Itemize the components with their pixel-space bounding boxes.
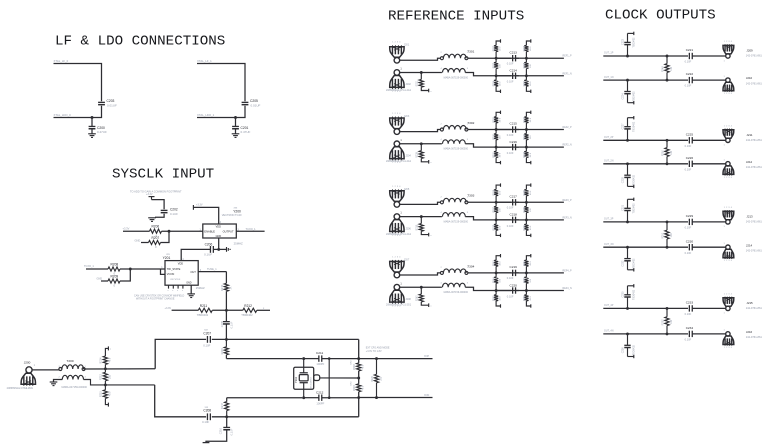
svg-text:J201: J201	[404, 44, 410, 47]
connector J210	[726, 78, 730, 82]
capacitor C224 shunt bottom	[627, 80, 629, 91]
svg-text:49.9: 49.9	[500, 46, 502, 51]
svg-text:49.9: 49.9	[500, 117, 502, 122]
wire top exit	[359, 358, 433, 360]
svg-text:4: 4	[85, 376, 87, 378]
svg-text:R221: R221	[416, 80, 419, 86]
node junction R229	[495, 128, 498, 131]
resistor R250	[666, 140, 668, 147]
wire T303 bottom to network	[465, 217, 511, 220]
wire inner bottom right of C212	[322, 397, 359, 399]
wire R207 up to node	[161, 231, 170, 242]
wire C210 drop	[226, 417, 228, 427]
svg-text:142-0761-861: 142-0761-861	[746, 220, 763, 224]
svg-text:REF4_P: REF4_P	[563, 269, 572, 272]
node junction R250 top	[666, 139, 669, 142]
svg-text:R211: R211	[200, 304, 208, 308]
svg-text:0.10F: 0.10F	[685, 60, 692, 64]
svg-text:x: x	[263, 307, 265, 310]
svg-text:MABA-007159-000000: MABA-007159-000000	[444, 76, 469, 79]
svg-text:100: 100	[500, 208, 502, 212]
svg-text:100: 100	[530, 208, 532, 212]
wire bottom between columns	[496, 290, 519, 292]
wire Y201 OUT	[198, 271, 226, 273]
svg-text:1: 1	[724, 313, 726, 315]
svg-text:R240: R240	[524, 189, 526, 195]
wire inner bottom	[227, 397, 303, 399]
wire top output	[526, 57, 564, 59]
wire J204 to transformer	[400, 143, 442, 145]
resistor R242	[420, 287, 422, 294]
svg-text:1: 1	[724, 226, 726, 228]
svg-text:0.10F: 0.10F	[685, 167, 692, 171]
svg-text:TCXO_1: TCXO_1	[84, 265, 94, 268]
wire C202 to ground	[155, 214, 164, 218]
svg-text:R208: R208	[111, 263, 119, 267]
svg-text:R230: R230	[494, 133, 496, 139]
svg-text:C226: C226	[686, 156, 694, 160]
wire into R206	[123, 230, 150, 232]
svg-text:R233: R233	[524, 116, 526, 122]
svg-text:T303: T303	[467, 194, 474, 198]
wire C230 to connector	[692, 246, 726, 248]
capacitor C217	[512, 199, 514, 205]
svg-text:R225: R225	[524, 62, 526, 68]
connector J209	[726, 54, 730, 58]
wire top between columns	[496, 272, 519, 274]
svg-text:R213: R213	[100, 374, 103, 381]
svg-text:49.9: 49.9	[500, 81, 502, 86]
svg-text:1234: 1234	[724, 347, 733, 349]
capacitor C200	[89, 125, 96, 127]
svg-text:C227: C227	[621, 123, 624, 130]
node junction R235	[420, 215, 423, 218]
svg-text:C206: C206	[205, 242, 213, 246]
capacitor C208	[206, 413, 208, 420]
termination C236	[628, 356, 634, 358]
svg-text:R215: R215	[100, 391, 103, 398]
svg-text:1: 1	[400, 282, 402, 285]
termination R247	[526, 256, 530, 260]
resistor R224	[495, 76, 497, 80]
svg-text:1234: 1234	[724, 41, 733, 43]
svg-text:100: 100	[670, 66, 673, 71]
connector J212	[726, 162, 730, 166]
wire crystal top lead	[303, 359, 305, 373]
svg-text:100: 100	[530, 63, 532, 67]
svg-text:x: x	[430, 235, 432, 237]
wire bottom row	[603, 79, 688, 81]
svg-text:DNI: DNI	[351, 360, 353, 364]
svg-text:SYSCLK INPUT: SYSCLK INPUT	[112, 167, 214, 183]
svg-text:J203: J203	[404, 115, 410, 118]
svg-text:VECTRON TC40: VECTRON TC40	[222, 213, 242, 217]
node junction C223	[626, 55, 629, 58]
resistor R220 column	[376, 359, 378, 375]
svg-text:GND: GND	[135, 238, 141, 242]
connector J203	[394, 129, 400, 135]
svg-text:TO ADD TO GAIN A COMMON FOOTPR: TO ADD TO GAIN A COMMON FOOTPRINT	[130, 190, 182, 194]
wire inner top right of C211	[322, 358, 359, 360]
connector J215	[726, 306, 730, 310]
capacitor C231 shunt top	[627, 211, 629, 222]
svg-text:R251: R251	[661, 232, 664, 239]
svg-text:20868SMA2-07G1-2G1: 20868SMA2-07G1-2G1	[386, 233, 412, 236]
capacitor C206	[209, 246, 211, 253]
svg-text:R245: R245	[494, 295, 496, 301]
svg-text:0.01UF: 0.01UF	[251, 104, 261, 108]
svg-text:0.10F: 0.10F	[202, 420, 209, 424]
svg-text:R239: R239	[524, 206, 526, 212]
wire C222 to connector	[692, 79, 726, 81]
svg-text:3: 3	[467, 68, 469, 70]
connector J204	[394, 141, 400, 147]
svg-text:C207: C207	[203, 331, 211, 335]
wire C234 to connector	[692, 333, 726, 335]
svg-text:REF3_N: REF3_N	[563, 216, 572, 219]
node junction R252 top	[666, 307, 669, 310]
svg-text:100: 100	[500, 135, 502, 139]
termination R221	[421, 87, 428, 90]
wire top to col2	[516, 201, 527, 203]
capacitor C233	[688, 305, 690, 311]
wire J207 to transformer	[400, 273, 441, 275]
resistor R229	[494, 117, 498, 123]
capacitor C210	[223, 426, 230, 428]
svg-text:1234: 1234	[724, 125, 733, 127]
svg-text:100PF: 100PF	[316, 402, 324, 406]
resistor R231	[495, 147, 497, 151]
svg-text:0.1UF: 0.1UF	[170, 212, 178, 216]
svg-text:J212: J212	[746, 160, 753, 164]
node junction R251 top	[666, 220, 669, 223]
svg-text:C235: C235	[621, 291, 624, 298]
svg-text:TCXO_1: TCXO_1	[246, 227, 257, 231]
svg-text:R237: R237	[494, 206, 496, 212]
svg-text:TBD0402: TBD0402	[633, 37, 636, 48]
node junction	[234, 116, 237, 119]
wire T304 top to network	[468, 272, 511, 274]
capacitor C225	[688, 137, 690, 143]
resistor R210	[224, 283, 228, 291]
svg-text:R249: R249	[661, 66, 664, 73]
svg-text:49.9: 49.9	[108, 391, 111, 396]
resistor R237	[495, 202, 497, 206]
svg-text:C219: C219	[510, 265, 518, 269]
capacitor C218	[512, 217, 514, 223]
resistor R247	[524, 260, 528, 266]
svg-text:20868SMA2-07G1-2G1: 20868SMA2-07G1-2G1	[386, 89, 412, 92]
wire bottom between columns	[496, 219, 519, 221]
wire to ground	[235, 129, 237, 134]
termination R224	[496, 86, 500, 91]
svg-text:C205: C205	[250, 99, 258, 103]
wire bottom output	[526, 75, 564, 77]
svg-text:142-0761-861: 142-0761-861	[746, 54, 763, 58]
svg-text:R212: R212	[244, 304, 252, 308]
svg-text:R218: R218	[353, 364, 356, 371]
svg-text:C233: C233	[686, 301, 694, 305]
wire lower right rail	[358, 392, 360, 417]
wire bottom to col2	[516, 219, 527, 221]
ground T200	[50, 381, 58, 383]
svg-text:R242: R242	[416, 295, 419, 301]
svg-text:C225: C225	[686, 132, 694, 136]
node junction C232	[626, 246, 629, 249]
svg-text:100: 100	[500, 63, 502, 67]
power +3.3V Y200	[192, 205, 194, 210]
svg-text:C211: C211	[316, 351, 323, 355]
svg-text:R236: R236	[494, 189, 496, 195]
svg-text:R222: R222	[494, 62, 496, 68]
node junction C206	[217, 248, 220, 251]
svg-text:OUT_1P: OUT_1P	[604, 52, 614, 55]
svg-text:MABA-007159-000000: MABA-007159-000000	[444, 291, 469, 294]
resistor R240	[524, 189, 528, 195]
node junction R214/R213 top	[104, 367, 107, 370]
svg-text:C236: C236	[621, 347, 624, 354]
capacitor C215	[512, 126, 514, 132]
svg-text:TRI_STATE: TRI_STATE	[167, 267, 181, 271]
wire bottom output	[526, 290, 564, 292]
termination R236	[496, 185, 500, 189]
svg-text:1: 1	[85, 366, 87, 368]
wire C229 to connector	[692, 221, 726, 223]
node junction R225	[525, 74, 528, 77]
node junction R244	[495, 289, 498, 292]
capacitor C222	[688, 77, 690, 83]
termination R229	[496, 112, 500, 116]
resistor R226	[524, 45, 528, 51]
svg-text:R243: R243	[494, 260, 496, 266]
capacitor C228 shunt bottom	[627, 164, 629, 175]
svg-text:C231: C231	[621, 204, 624, 211]
wire between R218 R219	[358, 371, 360, 384]
ground for C202	[148, 217, 156, 219]
wire T302 bottom to network	[465, 144, 511, 147]
wire bottom row	[603, 333, 688, 335]
wire R217 to inner bottom wire	[226, 398, 228, 402]
svg-text:142-0761-861: 142-0761-861	[746, 335, 763, 339]
wire R206 to node	[162, 230, 203, 232]
svg-text:R228: R228	[416, 151, 419, 157]
resistor R230	[495, 130, 497, 134]
svg-text:100: 100	[530, 278, 532, 282]
svg-text:GND: GND	[216, 235, 222, 238]
termination R226	[526, 41, 530, 45]
resistor R243	[494, 260, 498, 266]
wire bottom rail of loop	[212, 416, 359, 418]
Y201 NC stubs	[168, 285, 170, 288]
svg-text:R235: R235	[416, 224, 419, 230]
svg-text:49.9: 49.9	[500, 190, 502, 195]
termination R235	[421, 231, 428, 234]
svg-text:x: x	[172, 290, 173, 292]
wire T302 top to network	[468, 129, 511, 131]
termination R243	[496, 256, 500, 260]
capacitor C232 shunt bottom	[627, 247, 629, 258]
svg-text:Y201: Y201	[163, 256, 171, 260]
termination R227	[526, 86, 530, 91]
wire Y200 VDD to power	[193, 207, 218, 224]
wire C209 to top rail	[225, 324, 227, 339]
capacitor C207	[206, 336, 208, 343]
svg-text:0.10F: 0.10F	[507, 224, 514, 228]
svg-text:4: 4	[441, 212, 443, 214]
node junction R230	[495, 146, 498, 149]
svg-text:REF1_P: REF1_P	[563, 55, 572, 58]
svg-text:3: 3	[467, 283, 469, 285]
stub VCON	[161, 269, 166, 274]
wire inner top	[226, 358, 302, 360]
svg-text:25MHZ: 25MHZ	[196, 286, 205, 290]
svg-text:R223: R223	[494, 45, 496, 51]
svg-text:1: 1	[724, 60, 726, 62]
wire into R207	[141, 242, 149, 244]
svg-text:x: x	[177, 290, 178, 292]
node junction R232	[525, 146, 528, 149]
svg-text:49.9: 49.9	[362, 385, 365, 390]
svg-text:TBD0402: TBD0402	[633, 91, 636, 102]
node junction C235	[626, 307, 629, 310]
termination R242	[421, 302, 428, 305]
wire bottom between columns	[496, 146, 519, 148]
svg-text:100: 100	[530, 135, 532, 139]
svg-text:OUT_3P: OUT_3P	[604, 218, 614, 221]
svg-text:R238: R238	[494, 224, 496, 230]
resistor R249	[666, 56, 668, 64]
svg-text:MABA-007159-000000: MABA-007159-000000	[444, 221, 469, 224]
capacitor C223 shunt top	[627, 45, 629, 56]
svg-text:142-0761-861: 142-0761-861	[746, 138, 763, 142]
wire Y200 output	[236, 230, 264, 232]
wire T301 bottom to network	[465, 73, 511, 76]
termination C232	[628, 269, 634, 271]
svg-text:T304: T304	[467, 264, 474, 268]
wire top between columns	[496, 57, 519, 59]
resistor R218 (right rail)	[357, 363, 361, 371]
transformer T304 primary	[440, 271, 443, 274]
resistor R214	[104, 364, 106, 368]
termination C231	[628, 198, 634, 200]
wire R212 right end	[257, 309, 270, 311]
svg-text:J205: J205	[404, 188, 410, 191]
svg-text:OUT_4P: OUT_4P	[604, 304, 614, 307]
svg-text:0.10F: 0.10F	[685, 338, 692, 342]
svg-text:REF2_N: REF2_N	[563, 144, 572, 147]
node junction C227	[626, 139, 629, 142]
capacitor C216	[512, 144, 514, 150]
svg-text:REF1_N: REF1_N	[563, 72, 572, 75]
capacitor C202	[161, 209, 168, 211]
svg-text:x: x	[182, 290, 183, 292]
svg-text:TBD0402: TBD0402	[241, 313, 253, 317]
svg-text:J213: J213	[746, 215, 753, 219]
termination C227	[628, 117, 634, 119]
wire J206 to transformer	[400, 216, 442, 218]
connector J206	[394, 214, 400, 220]
node junction R249 top	[666, 55, 669, 58]
wire top row	[603, 139, 688, 141]
svg-text:x: x	[430, 306, 432, 308]
node junction bottom inner wire right	[357, 396, 360, 399]
capacitor C219	[512, 270, 514, 276]
wire T303 top to network	[468, 201, 511, 203]
svg-text:C224: C224	[621, 93, 624, 100]
resistor R233	[524, 117, 528, 123]
wire bottom to col2	[516, 146, 527, 148]
svg-text:1234: 1234	[392, 42, 401, 44]
termination R228	[421, 159, 428, 162]
resistor R235	[420, 217, 422, 224]
wire T301 top to network	[468, 57, 511, 59]
svg-text:3: 3	[467, 139, 469, 141]
wire top output	[526, 129, 564, 131]
svg-text:+3.3V TO 1.8V: +3.3V TO 1.8V	[366, 350, 382, 353]
svg-text:LF & LDO CONNECTIONS: LF & LDO CONNECTIONS	[55, 34, 225, 50]
svg-text:J204: J204	[405, 155, 411, 158]
svg-text:J206: J206	[405, 227, 411, 230]
capacitor C236 shunt bottom	[627, 334, 629, 345]
svg-text:49.9: 49.9	[500, 225, 502, 230]
wire node to Y201 TRI_STATE	[130, 268, 165, 270]
svg-text:T302: T302	[467, 121, 474, 125]
svg-text:R224: R224	[494, 80, 496, 86]
svg-text:R232: R232	[524, 133, 526, 139]
svg-text:C229: C229	[686, 214, 694, 218]
resistor R232	[525, 130, 527, 134]
wire top output	[526, 272, 564, 274]
wire bottom row	[603, 163, 688, 165]
connector J201	[394, 58, 400, 64]
node junction C224	[626, 79, 629, 82]
crystal Y202 outline	[294, 367, 314, 389]
svg-text:+3.3V: +3.3V	[165, 307, 172, 310]
capacitor C212	[318, 395, 320, 401]
termination R233	[526, 112, 530, 116]
wire into R208	[86, 268, 108, 270]
wire bottom to col2	[516, 290, 527, 292]
svg-text:4: 4	[441, 139, 443, 141]
ground	[88, 133, 96, 135]
svg-text:J216: J216	[746, 330, 753, 334]
capacitor C235 shunt top	[627, 297, 629, 308]
connector J211	[726, 138, 730, 142]
node junction R242	[420, 286, 423, 289]
wire T200 secondary gnd	[54, 380, 63, 383]
node junction R236	[495, 201, 498, 204]
resistor R223	[494, 45, 498, 51]
svg-text:CRYSTEK: CRYSTEK	[170, 279, 181, 281]
wire R211 to node	[212, 309, 243, 311]
svg-text:100: 100	[670, 150, 673, 155]
wire top row	[603, 221, 688, 223]
ground C210	[203, 442, 210, 444]
node junction top rail	[225, 338, 228, 341]
svg-text:49.152MHZ: 49.152MHZ	[311, 377, 313, 389]
svg-text:0.01UF: 0.01UF	[107, 104, 117, 108]
svg-text:Y202: Y202	[294, 376, 298, 383]
svg-text:OUT_3N: OUT_3N	[604, 243, 614, 246]
svg-text:x: x	[168, 290, 169, 292]
svg-text:C218: C218	[510, 213, 518, 217]
capacitor C211	[318, 355, 320, 361]
svg-text:1: 1	[724, 76, 726, 78]
svg-text:x: x	[110, 348, 112, 350]
capacitor C201	[232, 125, 239, 127]
resistor R241	[525, 220, 527, 224]
svg-text:MABA-007159-000000: MABA-007159-000000	[444, 148, 469, 151]
